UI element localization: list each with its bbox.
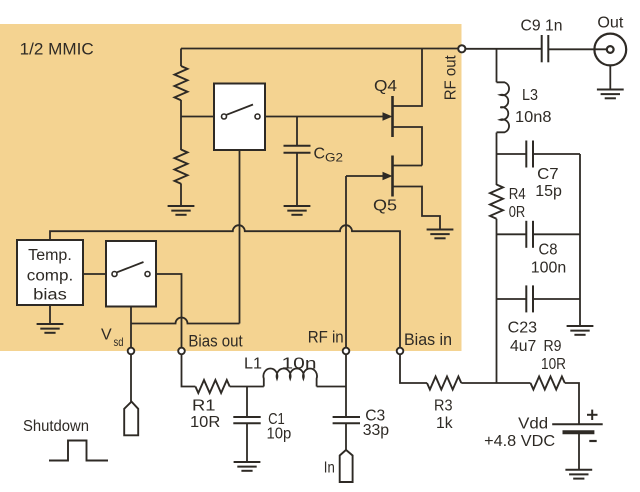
svg-text:Q5: Q5 xyxy=(373,198,397,215)
svg-text:sd: sd xyxy=(114,335,124,349)
svg-text:+4.8 VDC: +4.8 VDC xyxy=(484,433,555,450)
ground (Out) xyxy=(597,90,624,99)
svg-text:10R: 10R xyxy=(541,356,566,373)
resistor R9 xyxy=(531,377,565,390)
node RF in xyxy=(343,348,350,355)
ground (C1) xyxy=(234,462,261,471)
resistor R3 xyxy=(427,377,461,390)
svg-text:1k: 1k xyxy=(436,415,454,432)
svg-text:V: V xyxy=(101,326,112,343)
capacitor C23 xyxy=(526,285,533,312)
wire R9 to battery xyxy=(565,383,579,424)
connector In plug xyxy=(340,450,353,482)
svg-text:100n: 100n xyxy=(531,260,567,277)
svg-text:C7: C7 xyxy=(537,166,559,183)
svg-text:C8: C8 xyxy=(539,241,558,258)
svg-text:G2: G2 xyxy=(325,151,343,165)
svg-text:Out: Out xyxy=(597,15,624,32)
wire CG2 tap xyxy=(296,117,298,147)
svg-text:bias: bias xyxy=(33,286,67,303)
ground (Q5 source) xyxy=(427,230,454,239)
svg-text:C: C xyxy=(314,145,326,162)
svg-text:33p: 33p xyxy=(363,422,389,439)
node RF out xyxy=(458,45,465,52)
wire C23 row xyxy=(497,298,527,300)
wire S1 output to Q4 gate xyxy=(265,116,389,118)
svg-text:RF in: RF in xyxy=(308,328,344,346)
wire left column lower xyxy=(496,219,498,383)
ground (battery) xyxy=(565,470,592,479)
connector Vsd plug xyxy=(124,402,138,436)
temp comp bias box xyxy=(17,240,83,305)
connector Out center pin xyxy=(607,46,614,53)
battery Vdd xyxy=(552,424,603,432)
Q5 gate wire xyxy=(346,175,389,177)
wire S2 bottom to Vsd xyxy=(130,307,132,348)
switch S2 box xyxy=(106,241,156,307)
wire RF out to C9 xyxy=(466,48,541,50)
svg-text:L1: L1 xyxy=(244,356,262,373)
wire Vsd to plug xyxy=(130,355,132,402)
switch S2 lever xyxy=(117,262,144,272)
svg-text:R1: R1 xyxy=(192,398,216,415)
svg-text:Bias in: Bias in xyxy=(404,331,452,349)
ground (right column) xyxy=(567,326,594,335)
resistor R1 xyxy=(195,380,229,393)
capacitor C7 xyxy=(526,141,533,168)
svg-text:10R: 10R xyxy=(190,414,220,431)
svg-text:10n8: 10n8 xyxy=(515,109,552,126)
wire temp box to switch S2 xyxy=(83,273,106,275)
wire Bias out to R1 xyxy=(182,355,196,387)
MMIC shaded region xyxy=(0,24,462,351)
svg-text:0R: 0R xyxy=(509,204,526,221)
svg-text:C23: C23 xyxy=(508,320,538,337)
wire Bias in to R3 xyxy=(400,355,427,383)
capacitor C9 xyxy=(542,35,549,62)
wire C8 row xyxy=(497,233,527,235)
wire divider bottom xyxy=(180,184,182,207)
ground (divider) xyxy=(168,206,195,215)
wire right column xyxy=(579,154,581,326)
node Bias in xyxy=(397,348,404,355)
wire divider tap to switch xyxy=(181,116,214,118)
wire S2 to bias out xyxy=(156,274,182,347)
svg-text:R9: R9 xyxy=(544,338,562,355)
wire CG2 to ground xyxy=(296,153,298,206)
node Vsd xyxy=(128,348,135,355)
resistor R4 xyxy=(490,185,503,219)
switch S1 lever xyxy=(227,105,254,115)
wire temp bias rail with hops xyxy=(50,225,400,347)
wire top rail xyxy=(181,48,458,50)
wire S1 bottom control xyxy=(239,150,241,324)
Q4 gate arrow xyxy=(383,112,393,120)
svg-text:1/2 MMIC: 1/2 MMIC xyxy=(20,39,94,58)
resistor (lower divider) xyxy=(175,150,188,184)
resistor (upper divider) xyxy=(175,66,188,100)
node Bias out xyxy=(178,348,185,355)
ground (temp box) xyxy=(37,324,64,333)
svg-text:10n: 10n xyxy=(282,356,317,373)
svg-text:C9 1n: C9 1n xyxy=(521,18,563,35)
ground (CG2) xyxy=(284,206,311,215)
transistor Q4 xyxy=(393,49,423,166)
wire battery to ground xyxy=(578,434,580,470)
wire divider top xyxy=(180,49,182,67)
shutdown pulse waveform xyxy=(49,441,108,461)
wire temp box to ground xyxy=(49,305,51,324)
wire RF in riser xyxy=(345,176,347,347)
label battery minus xyxy=(589,440,596,442)
inductor L3 xyxy=(497,82,510,132)
wire Out to ground xyxy=(609,66,611,90)
capacitor C3 xyxy=(333,417,360,423)
svg-text:R4: R4 xyxy=(509,186,526,203)
svg-text:RF out: RF out xyxy=(442,55,459,101)
capacitor C8 xyxy=(526,221,533,248)
svg-text:In: In xyxy=(324,460,335,477)
svg-text:Shutdown: Shutdown xyxy=(23,418,89,435)
transistor Q5 xyxy=(393,156,441,230)
wire R3 to junction xyxy=(461,382,530,384)
wire C7 row xyxy=(497,153,527,155)
wire R1 to C1 junction xyxy=(230,386,264,388)
wire C3 to In plug xyxy=(345,423,347,450)
wire Vsd link to S1 control with hop xyxy=(131,318,240,324)
inductor L1 xyxy=(263,368,317,386)
connector Out xyxy=(594,34,626,66)
wire C1 drop xyxy=(246,387,248,417)
svg-text:L3: L3 xyxy=(522,87,538,104)
wire L3 bottom xyxy=(496,133,498,186)
wire C1 to ground xyxy=(246,423,248,462)
wire RF in to C3 xyxy=(345,355,347,417)
switch S1 box xyxy=(214,84,265,151)
svg-text:comp.: comp. xyxy=(27,268,73,285)
svg-text:Vdd: Vdd xyxy=(518,416,548,433)
wire C9 to Out center xyxy=(548,48,606,50)
svg-text:10p: 10p xyxy=(267,425,292,442)
capacitor CG2 xyxy=(284,146,311,153)
svg-text:4u7: 4u7 xyxy=(510,338,536,355)
wire L1 to RF in riser xyxy=(317,386,346,388)
label battery plus xyxy=(587,410,598,420)
switch S2 contacts xyxy=(112,272,117,277)
wire L3 top xyxy=(496,49,498,82)
capacitor C1 xyxy=(233,417,260,423)
svg-text:Temp.: Temp. xyxy=(28,247,72,264)
svg-text:R3: R3 xyxy=(434,397,453,414)
wire divider middle xyxy=(180,100,182,150)
svg-text:Bias out: Bias out xyxy=(188,332,243,350)
svg-text:15p: 15p xyxy=(535,183,562,200)
switch S1 contacts xyxy=(222,114,227,119)
Q5 gate arrow xyxy=(383,172,393,180)
svg-text:Q4: Q4 xyxy=(374,78,397,95)
